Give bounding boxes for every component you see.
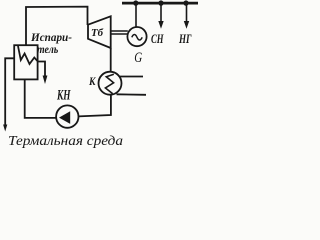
shaft turbine to generator (112, 30, 128, 32)
load arrow СН (160, 4, 162, 22)
svg-text:тель: тель (37, 44, 58, 56)
wire: thermal medium inlet left of evaporator (5, 58, 14, 126)
evaporator heating coil (18, 46, 37, 64)
wire: condenser to pump (79, 94, 111, 116)
evaporator vessel (14, 45, 37, 79)
svg-text:Термальная среда: Термальная среда (8, 133, 123, 148)
svg-text:КН: КН (56, 88, 71, 104)
wire: thermal medium outlet right of evaporator (38, 62, 45, 78)
svg-text:НГ: НГ (178, 31, 191, 46)
node generator junction (133, 0, 138, 5)
wire: condensate return evaporator bottom to pump (25, 79, 57, 118)
arrowhead thermal inlet line (3, 125, 7, 132)
svg-text:К: К (88, 74, 96, 88)
generator sine symbol (132, 35, 142, 41)
wire: cooling water lower line (117, 93, 147, 96)
load arrow НГ (186, 4, 188, 22)
wire: generator riser to busbar (135, 3, 137, 27)
node СН junction (158, 0, 163, 5)
busbar (122, 2, 198, 5)
node НГ junction (183, 0, 188, 5)
pump impeller triangle (59, 111, 70, 124)
turbine Тб trapezoid (88, 16, 111, 48)
arrowhead thermal outlet (43, 76, 48, 85)
svg-text:Испари-: Испари- (30, 32, 72, 44)
svg-text:G: G (134, 50, 142, 66)
wire: cooling water upper line (120, 76, 143, 78)
generator G circle (127, 27, 146, 46)
svg-text:СН: СН (151, 31, 164, 46)
pump КН circle (56, 105, 78, 127)
wire: turbine exhaust to condenser (110, 48, 112, 73)
condenser К circle (99, 72, 122, 95)
svg-text:Тб: Тб (91, 28, 104, 39)
wire: steam line evaporator top to turbine inlet (26, 7, 88, 46)
condenser cooling coil (105, 74, 113, 93)
